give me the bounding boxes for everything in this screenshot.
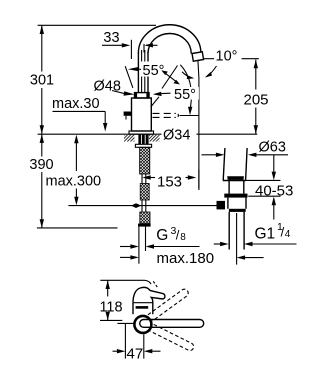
dimension Ø63 (202, 154, 217, 156)
arrow down 301 (40, 125, 44, 134)
lever extension line upper (162, 66, 178, 89)
counter hatch left (124, 135, 135, 142)
dashed spout arm up (148, 288, 190, 321)
pop-up port (217, 201, 226, 210)
spout outer arc (138, 25, 201, 54)
svg-text:153: 153 (157, 174, 182, 191)
dimension 47 (124, 323, 126, 358)
drain upper cylinder (223, 148, 225, 181)
svg-text:33: 33 (103, 30, 119, 46)
top reference line (301 top) (38, 24, 156, 26)
55 no.2 arc with down arrow (180, 65, 191, 107)
drain neck (229, 181, 244, 194)
dimension 390 vertical line (41, 134, 43, 156)
G3/8 extension line (138, 240, 140, 264)
svg-text:/: / (176, 227, 180, 242)
40-53 bottom reference line (248, 195, 280, 197)
svg-text:301: 301 (30, 73, 54, 89)
svg-text:4: 4 (285, 229, 291, 240)
shank nut (138, 224, 151, 227)
svg-text:8: 8 (180, 232, 186, 243)
svg-text:max.30: max.30 (52, 96, 100, 112)
svg-text:55°: 55° (143, 63, 165, 79)
swivel base circles (134, 316, 151, 333)
tailpipe centre line (236, 213, 238, 265)
svg-text:G: G (156, 227, 168, 244)
solid spout arm capsule (140, 320, 204, 328)
lever raised edge line (125, 66, 133, 88)
drain bottom band (229, 209, 246, 212)
lever axis line to stream (180, 115, 199, 117)
counter line (38, 133, 162, 135)
40-53 top reference line (246, 179, 281, 181)
stream / 153 extension line (198, 60, 199, 190)
G1 1/4 arrows (214, 243, 222, 245)
svg-text:55°: 55° (174, 87, 196, 103)
10deg swing arc right (207, 66, 217, 77)
dimension 301 vertical line (41, 25, 43, 71)
counter hatch right (149, 135, 160, 142)
label 55deg no.2 (172, 87, 199, 100)
drain locknut (224, 194, 247, 198)
svg-text:10°: 10° (216, 49, 238, 65)
rod between threads (141, 174, 143, 184)
svg-text:max.300: max.300 (46, 174, 102, 190)
arrow down 390 (40, 219, 44, 228)
55 double-headed arrow (163, 72, 178, 84)
dashed spout arm down (150, 324, 195, 351)
svg-text:Ø34: Ø34 (163, 128, 190, 144)
svg-text:Ø63: Ø63 (259, 140, 286, 156)
dimension 153 (142, 175, 151, 179)
svg-text:40-53: 40-53 (255, 182, 293, 199)
base flange (129, 131, 154, 134)
aerator (192, 52, 204, 61)
cartridge collar (135, 93, 150, 98)
10deg swing arc left (182, 72, 191, 78)
body band line (133, 302, 153, 304)
dashed raised lever hint (153, 281, 157, 287)
lever extension line lower (151, 97, 159, 107)
max.180 arrows (120, 256, 131, 258)
tailpipe (228, 212, 230, 250)
threaded shank C (140, 212, 150, 224)
shank through counter (dark) (138, 134, 148, 144)
washer under counter (135, 144, 151, 147)
svg-text:max.180: max.180 (157, 250, 215, 267)
svg-text:47: 47 (127, 345, 144, 362)
faucet body (132, 98, 152, 131)
arrow up 390 (40, 134, 44, 143)
body top view outline (133, 287, 165, 314)
svg-text:118: 118 (99, 299, 122, 315)
body dark band (136, 306, 149, 309)
dimension 40-53 (273, 155, 275, 172)
55 no.2 leader arrow to lever (162, 92, 171, 94)
pop-up rod horizontal (max.300 reference) (68, 205, 216, 207)
390 bottom reference line (37, 227, 118, 229)
drain seat dark bar (227, 176, 244, 180)
dimension max.300 upper arrow (74, 135, 78, 144)
G3/8 dimension arrows (120, 246, 131, 248)
svg-text:390: 390 (29, 157, 53, 173)
rod clamp (131, 203, 141, 208)
dimension 205 (255, 60, 257, 90)
drain flange underside (223, 180, 246, 182)
spout riser pipe (137, 53, 139, 93)
threaded shank A (140, 147, 150, 174)
top reference line (118) (100, 280, 151, 284)
svg-text:G1: G1 (255, 226, 276, 243)
spout inner arc (148, 33, 191, 53)
drain lower body (228, 198, 246, 209)
label 55deg no.1 (141, 62, 167, 77)
lever horizontal dashed outline (153, 113, 179, 117)
118 bottom reference line (100, 319, 122, 321)
G3/8 pipe (138, 227, 140, 240)
dimension 118 (106, 280, 110, 289)
33 tick right (pipe centre) (143, 44, 145, 53)
threaded shank B (140, 184, 149, 201)
10deg leader and label (204, 58, 214, 60)
rod segment (141, 200, 143, 212)
svg-text:205: 205 (243, 91, 268, 108)
pop-up knob at rear (124, 112, 132, 116)
55deg no.1 arrow (pointing at lever) (128, 67, 139, 71)
arrow up 301 (40, 25, 44, 34)
swivel centre line (118, 322, 135, 324)
33 tick left (130, 40, 132, 59)
